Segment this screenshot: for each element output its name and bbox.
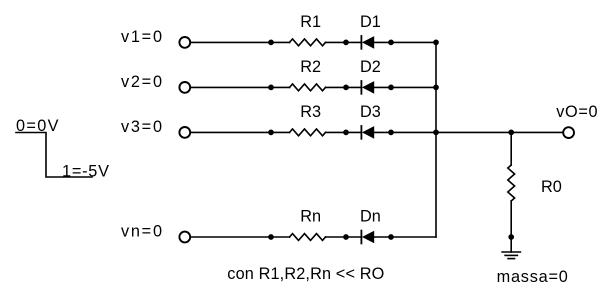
junction bus row 2 (433, 85, 439, 91)
resistor R3 (290, 129, 326, 136)
resistor R0 (508, 165, 515, 201)
input terminal v2 (179, 82, 190, 93)
wire output node to R0 (510, 132, 512, 165)
diode D2 (361, 81, 374, 94)
svg-text:D1: D1 (360, 13, 381, 31)
wire R2 to D2 (326, 86, 362, 88)
svg-text:v3=0: v3=0 (121, 118, 162, 136)
junction R1-D1 (343, 40, 349, 46)
junction D1 cathode-side (388, 40, 394, 46)
wire Rn to Dn (326, 236, 362, 238)
junction v3 node a (268, 130, 274, 136)
junction ground node (508, 234, 514, 240)
junction R3-D3 (343, 130, 349, 136)
svg-text:1=-5V: 1=-5V (62, 163, 109, 181)
resistor R1 (290, 39, 326, 46)
ground massa (502, 252, 520, 259)
junction output node at R0 (508, 130, 514, 136)
junction bus row 1 (433, 40, 439, 46)
wire v1 terminal to R1 (190, 41, 289, 43)
junction vn node a (268, 234, 274, 240)
input terminal v1 (179, 37, 190, 48)
svg-text:con R1,R2,Rn << RO: con R1,R2,Rn << RO (227, 265, 384, 283)
junction Dn cathode-side (388, 234, 394, 240)
svg-text:R2: R2 (300, 58, 321, 76)
diode Dn (361, 231, 374, 244)
junction D3 cathode-side (388, 130, 394, 136)
svg-text:vn=0: vn=0 (121, 223, 162, 241)
svg-text:v2=0: v2=0 (121, 73, 162, 91)
wire vn terminal to Rn (190, 236, 289, 238)
svg-text:D2: D2 (360, 58, 381, 76)
svg-text:R0: R0 (541, 178, 562, 196)
junction Rn-Dn (343, 234, 349, 240)
wire D1 to bus (374, 41, 436, 43)
wire R3 to D3 (326, 131, 362, 133)
resistor Rn (290, 234, 326, 241)
input step waveform (16, 133, 92, 178)
svg-text:Rn: Rn (300, 208, 321, 226)
wire bus vertical (435, 42, 437, 237)
wire D3 to bus (374, 131, 562, 133)
wire D2 to bus (374, 86, 436, 88)
diode D3 (361, 126, 374, 139)
output terminal vO (563, 127, 574, 138)
resistor R2 (290, 84, 326, 91)
svg-text:D3: D3 (360, 103, 381, 121)
wire R1 to D1 (326, 41, 362, 43)
svg-text:R1: R1 (300, 13, 321, 31)
svg-text:vO=0: vO=0 (556, 103, 597, 121)
svg-text:0=0V: 0=0V (16, 117, 59, 135)
junction v1 node a (268, 40, 274, 46)
wire Dn to bus (374, 236, 436, 238)
wire v3 terminal to R3 (190, 131, 289, 133)
junction v2 node a (268, 85, 274, 91)
junction R2-D2 (343, 85, 349, 91)
junction D2 cathode-side (388, 85, 394, 91)
input terminal v3 (179, 127, 190, 138)
wire R0 to ground (510, 201, 512, 252)
svg-text:massa=0: massa=0 (497, 268, 568, 286)
junction bus row 3 (433, 130, 439, 136)
wire v2 terminal to R2 (190, 86, 289, 88)
svg-text:R3: R3 (300, 103, 321, 121)
svg-text:v1=0: v1=0 (121, 28, 162, 46)
svg-text:Dn: Dn (360, 208, 381, 226)
input terminal vn (179, 232, 190, 243)
diode D1 (361, 36, 374, 49)
